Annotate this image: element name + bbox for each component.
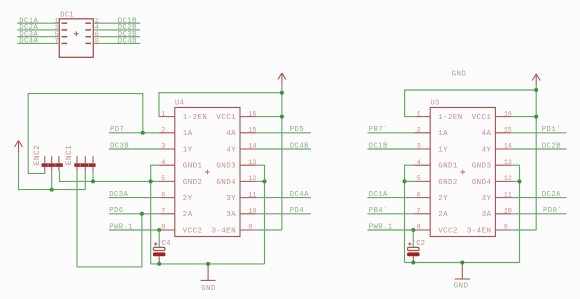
VCC arrow (U3 right) <box>532 74 540 86</box>
wire U3 pin 9 to VCC <box>512 229 537 231</box>
svg-text:3-4EN: 3-4EN <box>467 227 492 235</box>
svg-text:GND3: GND3 <box>472 163 492 171</box>
svg-text:VCC1: VCC1 <box>216 114 236 122</box>
VCC arrow (left) <box>15 141 23 153</box>
U3 pin 4 (GND1) <box>414 159 458 171</box>
U3 pin 3 (1Y) <box>414 143 448 155</box>
svg-text:VCC1: VCC1 <box>472 114 492 122</box>
wire PD1 from U3 pin 15 <box>512 132 567 134</box>
svg-text:3A: 3A <box>482 211 492 219</box>
junction U3 GND1/GND2 <box>403 179 407 183</box>
svg-text:4A: 4A <box>226 130 236 138</box>
svg-text:GND: GND <box>454 283 469 291</box>
wire DC2B (DC1 pin 4) <box>93 24 140 32</box>
junction PD6 <box>140 212 144 216</box>
svg-text:2Y: 2Y <box>183 195 193 203</box>
svg-text:GND4: GND4 <box>472 179 492 187</box>
wire PWR.1 to U4 pin 8 <box>109 229 159 231</box>
wire ENC1 pin 3 drop <box>92 171 94 182</box>
junction VCC top (U3) <box>534 88 538 92</box>
U4 pin 1 (1-2EN) <box>159 110 208 122</box>
svg-text:1: 1 <box>417 110 421 118</box>
U4 pin 15 (4A) <box>226 127 256 139</box>
U4 pin 3 (1Y) <box>159 143 193 155</box>
ground symbol (U4) <box>201 264 216 281</box>
svg-text:3Y: 3Y <box>482 195 492 203</box>
svg-text:1: 1 <box>161 110 165 118</box>
wire VCC vertical (U4) <box>281 85 283 231</box>
IC U4 body <box>175 108 240 237</box>
junction C2 to GND rail <box>411 261 415 265</box>
svg-text:ENC2: ENC2 <box>34 145 42 166</box>
svg-text:13: 13 <box>504 159 512 167</box>
wire U3 GND2 jog <box>405 180 415 182</box>
svg-text:10: 10 <box>248 208 256 216</box>
wire U4 bottom GND rail <box>151 263 265 265</box>
U3 pin 7 (2A) <box>414 208 448 220</box>
wire PD7 to U4 pin 2 <box>109 132 159 134</box>
wire DC1A (DC1 pin 1) <box>17 17 59 25</box>
svg-text:7: 7 <box>161 208 165 216</box>
svg-text:1-2EN: 1-2EN <box>183 114 208 122</box>
svg-text:1Y: 1Y <box>438 146 448 154</box>
U3 pin 10 (3A) <box>482 208 512 220</box>
wire PD0 from U3 pin 10 <box>512 213 567 215</box>
svg-text:DC4A: DC4A <box>19 38 38 46</box>
svg-text:1-2EN: 1-2EN <box>438 114 463 122</box>
svg-text:4: 4 <box>417 159 421 167</box>
U3 pin 9 (3-4EN) <box>467 224 512 236</box>
wire U3 GND1 left rail <box>405 165 415 262</box>
junction PWR.1 / C2 <box>411 228 415 232</box>
wire PD6 to U4 pin 7 <box>109 213 159 215</box>
U3 pin 13 (GND3) <box>472 159 512 171</box>
wire U4 pin 9 to VCC <box>256 229 282 231</box>
capacitor C4 <box>153 230 165 264</box>
U4 pin 8 (VCC2) <box>159 224 203 236</box>
wire VCC vertical (U3) <box>535 86 537 231</box>
svg-text:DC4B: DC4B <box>118 38 137 46</box>
svg-text:16: 16 <box>248 110 256 118</box>
junction U4 GND3/GND4 <box>263 179 267 183</box>
U3 pin 15 (4A) <box>482 127 512 139</box>
svg-text:3: 3 <box>161 143 165 151</box>
wire PD4 from U4 pin 10 <box>256 213 311 215</box>
U3 pin 11 (3Y) <box>482 191 512 203</box>
wire DC2A from U3 pin 11 <box>512 197 567 199</box>
U4 pin 6 (2Y) <box>159 191 193 203</box>
svg-text:GND2: GND2 <box>183 179 203 187</box>
wire U4 pin 16 to VCC <box>256 116 282 118</box>
U4 pin 11 (3Y) <box>226 191 256 203</box>
svg-text:14: 14 <box>248 143 256 151</box>
svg-text:GND: GND <box>452 70 467 78</box>
wire PD6 loop to ENC1 pin 1 <box>77 171 142 267</box>
svg-text:16: 16 <box>504 110 512 118</box>
wire U3 bottom GND rail <box>405 262 520 264</box>
svg-text:11: 11 <box>248 191 256 199</box>
wire DC2B from U3 pin 14 <box>512 148 567 150</box>
junction GND symbol (U4) <box>206 262 210 266</box>
U4 pin 12 (GND4) <box>216 175 256 187</box>
svg-text:6: 6 <box>417 191 421 199</box>
junction VCC ENC2 pin 2 <box>50 188 54 192</box>
svg-text:12: 12 <box>504 175 512 183</box>
svg-text:GND3: GND3 <box>216 163 236 171</box>
wire DC1B (DC1 pin 2) <box>93 17 140 25</box>
svg-text:15: 15 <box>248 127 256 135</box>
junction U4 GND1/GND2 <box>149 179 153 183</box>
capacitor C2 <box>407 230 419 263</box>
svg-text:U3: U3 <box>431 99 440 107</box>
svg-text:7: 7 <box>55 38 59 46</box>
svg-text:7: 7 <box>417 208 421 216</box>
U4 pin 14 (4Y) <box>226 143 256 155</box>
svg-text:2A: 2A <box>183 211 193 219</box>
connector ENC2 <box>42 156 63 171</box>
U3 pin 8 (VCC2) <box>414 224 458 236</box>
svg-text:3A: 3A <box>226 211 236 219</box>
svg-text:2: 2 <box>417 127 421 135</box>
svg-text:ENC1: ENC1 <box>66 145 74 166</box>
svg-text:10: 10 <box>504 208 512 216</box>
svg-text:2Y: 2Y <box>438 195 448 203</box>
wire PB7 to U3 pin 2 <box>368 132 415 134</box>
wire DC1B to U3 pin 3 <box>368 148 415 150</box>
IC U3 body <box>430 108 495 237</box>
svg-text:8: 8 <box>417 224 421 232</box>
svg-text:GND1: GND1 <box>183 163 203 171</box>
svg-text:14: 14 <box>504 143 512 151</box>
svg-text:6: 6 <box>161 191 165 199</box>
svg-text:3-4EN: 3-4EN <box>211 227 236 235</box>
svg-text:8: 8 <box>95 38 99 46</box>
wire PWR.1 to U3 pin 8 <box>368 229 414 231</box>
U4 pin 2 (1A) <box>159 127 193 139</box>
wire U3 pin 1 net <box>405 90 537 117</box>
svg-text:4Y: 4Y <box>226 146 236 154</box>
wire DC1A to U3 pin 6 <box>368 197 415 199</box>
wire DC4B from U4 pin 14 <box>256 148 311 150</box>
U3 pin 14 (4Y) <box>482 143 512 155</box>
svg-text:8: 8 <box>161 224 165 232</box>
svg-text:2: 2 <box>161 127 165 135</box>
U3 pin 1 (1-2EN) <box>414 110 463 122</box>
svg-text:5: 5 <box>417 175 421 183</box>
svg-text:3Y: 3Y <box>226 195 236 203</box>
svg-text:DC1: DC1 <box>60 12 74 20</box>
svg-text:1A: 1A <box>183 130 193 138</box>
connector ENC1 <box>74 156 95 171</box>
junction VCC pin16 (U3) <box>534 115 538 119</box>
wire GND from ENC2 pin 3 to U4 pin 5 <box>60 171 159 182</box>
U3 pin 5 (GND2) <box>414 175 458 187</box>
wire DC3B (DC1 pin 6) <box>93 31 140 39</box>
svg-text:12: 12 <box>248 175 256 183</box>
wire ENC2 pin 2 drop <box>51 171 53 190</box>
connector DC1 body <box>59 19 93 58</box>
svg-text:15: 15 <box>504 127 512 135</box>
svg-text:4: 4 <box>161 159 165 167</box>
svg-text:GND2: GND2 <box>438 179 458 187</box>
junction C4 to GND rail <box>157 262 161 266</box>
wire DC4A (DC1 pin 7) <box>17 38 59 46</box>
U3 pin 2 (1A) <box>414 127 448 139</box>
svg-text:GND: GND <box>201 285 216 293</box>
svg-text:9: 9 <box>504 224 508 232</box>
wire U3 GND3 right rail <box>512 165 520 262</box>
svg-text:1Y: 1Y <box>183 146 193 154</box>
wire DC3A (DC1 pin 5) <box>17 31 59 39</box>
wire U4 GND1 to GND rail <box>151 165 159 264</box>
U3 pin 12 (GND4) <box>472 175 512 187</box>
svg-text:C2: C2 <box>416 240 425 248</box>
junction PD7 <box>141 131 145 135</box>
wire DC4A from U4 pin 11 <box>256 197 311 199</box>
U4 pin 13 (GND3) <box>216 159 256 171</box>
svg-text:VCC2: VCC2 <box>438 227 458 235</box>
U4 pin 9 (3-4EN) <box>211 224 256 236</box>
wire U4 pin 1 net <box>159 93 282 117</box>
svg-text:4Y: 4Y <box>482 146 492 154</box>
wire DC3B to U4 pin 3 <box>109 148 159 150</box>
U4 pin 5 (GND2) <box>159 175 203 187</box>
wire U4 GND3 right rail <box>158 164 160 166</box>
junction GND ENC1 pin 3 <box>91 179 95 183</box>
U4 pin 16 (VCC1) <box>216 110 256 122</box>
junction VCC top (U4) <box>280 91 284 95</box>
svg-text:4A: 4A <box>482 130 492 138</box>
wire VCC to ENC middle pins <box>19 152 86 190</box>
svg-text:VCC2: VCC2 <box>183 227 203 235</box>
U3 pin 6 (2Y) <box>414 191 448 203</box>
wire DC4B (DC1 pin 8) <box>93 38 140 46</box>
junction U3 GND3/GND4 <box>518 179 522 183</box>
wire DC3A to U4 pin 6 <box>109 197 159 199</box>
VCC arrow (U4 right) <box>278 73 286 85</box>
junction PWR.1 / C4 <box>157 228 161 232</box>
wire PB4 to U3 pin 7 <box>368 213 415 215</box>
svg-text:GND4: GND4 <box>216 179 236 187</box>
U4 pin 10 (3A) <box>226 208 256 220</box>
U4 pin 7 (2A) <box>159 208 193 220</box>
wire U3 pin 16 to VCC <box>512 116 537 118</box>
U4 pin 4 (GND1) <box>159 159 203 171</box>
wire PD7 loop to ENC2 pin 1 <box>28 94 143 174</box>
wire U3 GND4 jog <box>512 180 520 182</box>
svg-text:2A: 2A <box>438 211 448 219</box>
wire DC2A (DC1 pin 3) <box>17 24 59 32</box>
svg-text:1A: 1A <box>438 130 448 138</box>
svg-text:9: 9 <box>248 224 252 232</box>
svg-text:5: 5 <box>161 175 165 183</box>
ground symbol (U3) <box>455 263 470 280</box>
wire PD5 from U4 pin 15 <box>256 132 311 134</box>
svg-text:13: 13 <box>248 159 256 167</box>
wire U4 GND4 jog <box>256 180 264 182</box>
svg-text:GND1: GND1 <box>438 163 458 171</box>
svg-text:3: 3 <box>417 143 421 151</box>
svg-text:C4: C4 <box>162 240 171 248</box>
svg-text:11: 11 <box>504 191 512 199</box>
junction VCC pin16 (U4) <box>280 115 284 119</box>
U3 pin 16 (VCC1) <box>472 110 512 122</box>
junction GND symbol (U3) <box>460 261 464 265</box>
svg-text:U4: U4 <box>175 99 184 107</box>
